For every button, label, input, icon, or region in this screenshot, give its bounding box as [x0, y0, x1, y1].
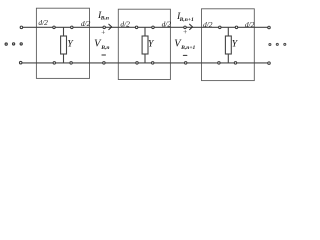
section box unit cell n [36, 8, 89, 78]
node bottom gap2 [185, 62, 187, 64]
wire shunt stub box3 [227, 27, 229, 36]
node top box2 left [135, 26, 137, 28]
admittance Y2 [142, 36, 148, 54]
node bottom box2 left [136, 62, 138, 64]
svg-text:B,n: B,n [100, 45, 109, 51]
arrowhead current IB,n+1 [190, 24, 193, 29]
label current IB,n [97, 10, 109, 22]
wire top rail [21, 26, 269, 28]
arrowhead current IB,n [109, 24, 112, 29]
svg-text:B,n+1: B,n+1 [179, 17, 194, 23]
node top box1 left [53, 26, 55, 28]
node bottom box1 left [53, 62, 55, 64]
svg-text:B,n+1: B,n+1 [180, 45, 195, 51]
svg-text:B,n: B,n [100, 16, 109, 22]
section box unit cell n+1 [118, 9, 170, 79]
section box unit cell n+2 [202, 9, 255, 81]
node top box3 left [219, 26, 221, 28]
wire bottom rail [21, 62, 269, 64]
svg-text:+: + [183, 27, 187, 36]
admittance Y1 [61, 36, 67, 54]
svg-text:d/2: d/2 [120, 19, 130, 28]
node top box2 right [152, 26, 154, 28]
svg-text:d/2: d/2 [81, 19, 91, 28]
right continuation dots [269, 43, 286, 45]
node top gap1 [103, 26, 105, 28]
left continuation dots [5, 43, 22, 45]
svg-text:Y: Y [148, 39, 155, 50]
node bottom box3 right [234, 62, 236, 64]
svg-text:+: + [101, 28, 105, 37]
node top box3 right [235, 26, 237, 28]
wire shunt stub bottom box1 [63, 54, 65, 63]
label voltage VB,n [94, 38, 109, 51]
label current IB,n+1 [176, 11, 194, 23]
node bottom gap1 [103, 62, 105, 64]
node top gap2 [184, 26, 186, 28]
svg-text:d/2: d/2 [38, 18, 48, 27]
node terminal bottom-right [268, 62, 271, 65]
label voltage VB,n+1 [174, 38, 195, 51]
svg-text:d/2: d/2 [203, 20, 213, 29]
node terminal top-right [268, 26, 271, 29]
admittance Y3 [225, 36, 231, 54]
svg-text:d/2: d/2 [162, 19, 172, 28]
node terminal bottom-left [19, 61, 22, 64]
node terminal top-left [20, 26, 23, 29]
minus sign VB,n+1 [183, 54, 187, 56]
wire shunt stub box2 [144, 27, 146, 36]
svg-text:d/2: d/2 [245, 20, 255, 29]
node bottom box1 right [70, 62, 72, 64]
wire shunt stub bottom box2 [144, 54, 146, 63]
minus sign VB,n [102, 54, 106, 56]
svg-text:Y: Y [67, 39, 74, 50]
wire shunt stub box1 [63, 27, 65, 36]
node bottom box2 right [152, 62, 154, 64]
wire shunt stub bottom box3 [227, 54, 229, 63]
node top box1 right [71, 26, 73, 28]
node bottom box3 left [218, 62, 220, 64]
svg-text:Y: Y [232, 39, 239, 50]
